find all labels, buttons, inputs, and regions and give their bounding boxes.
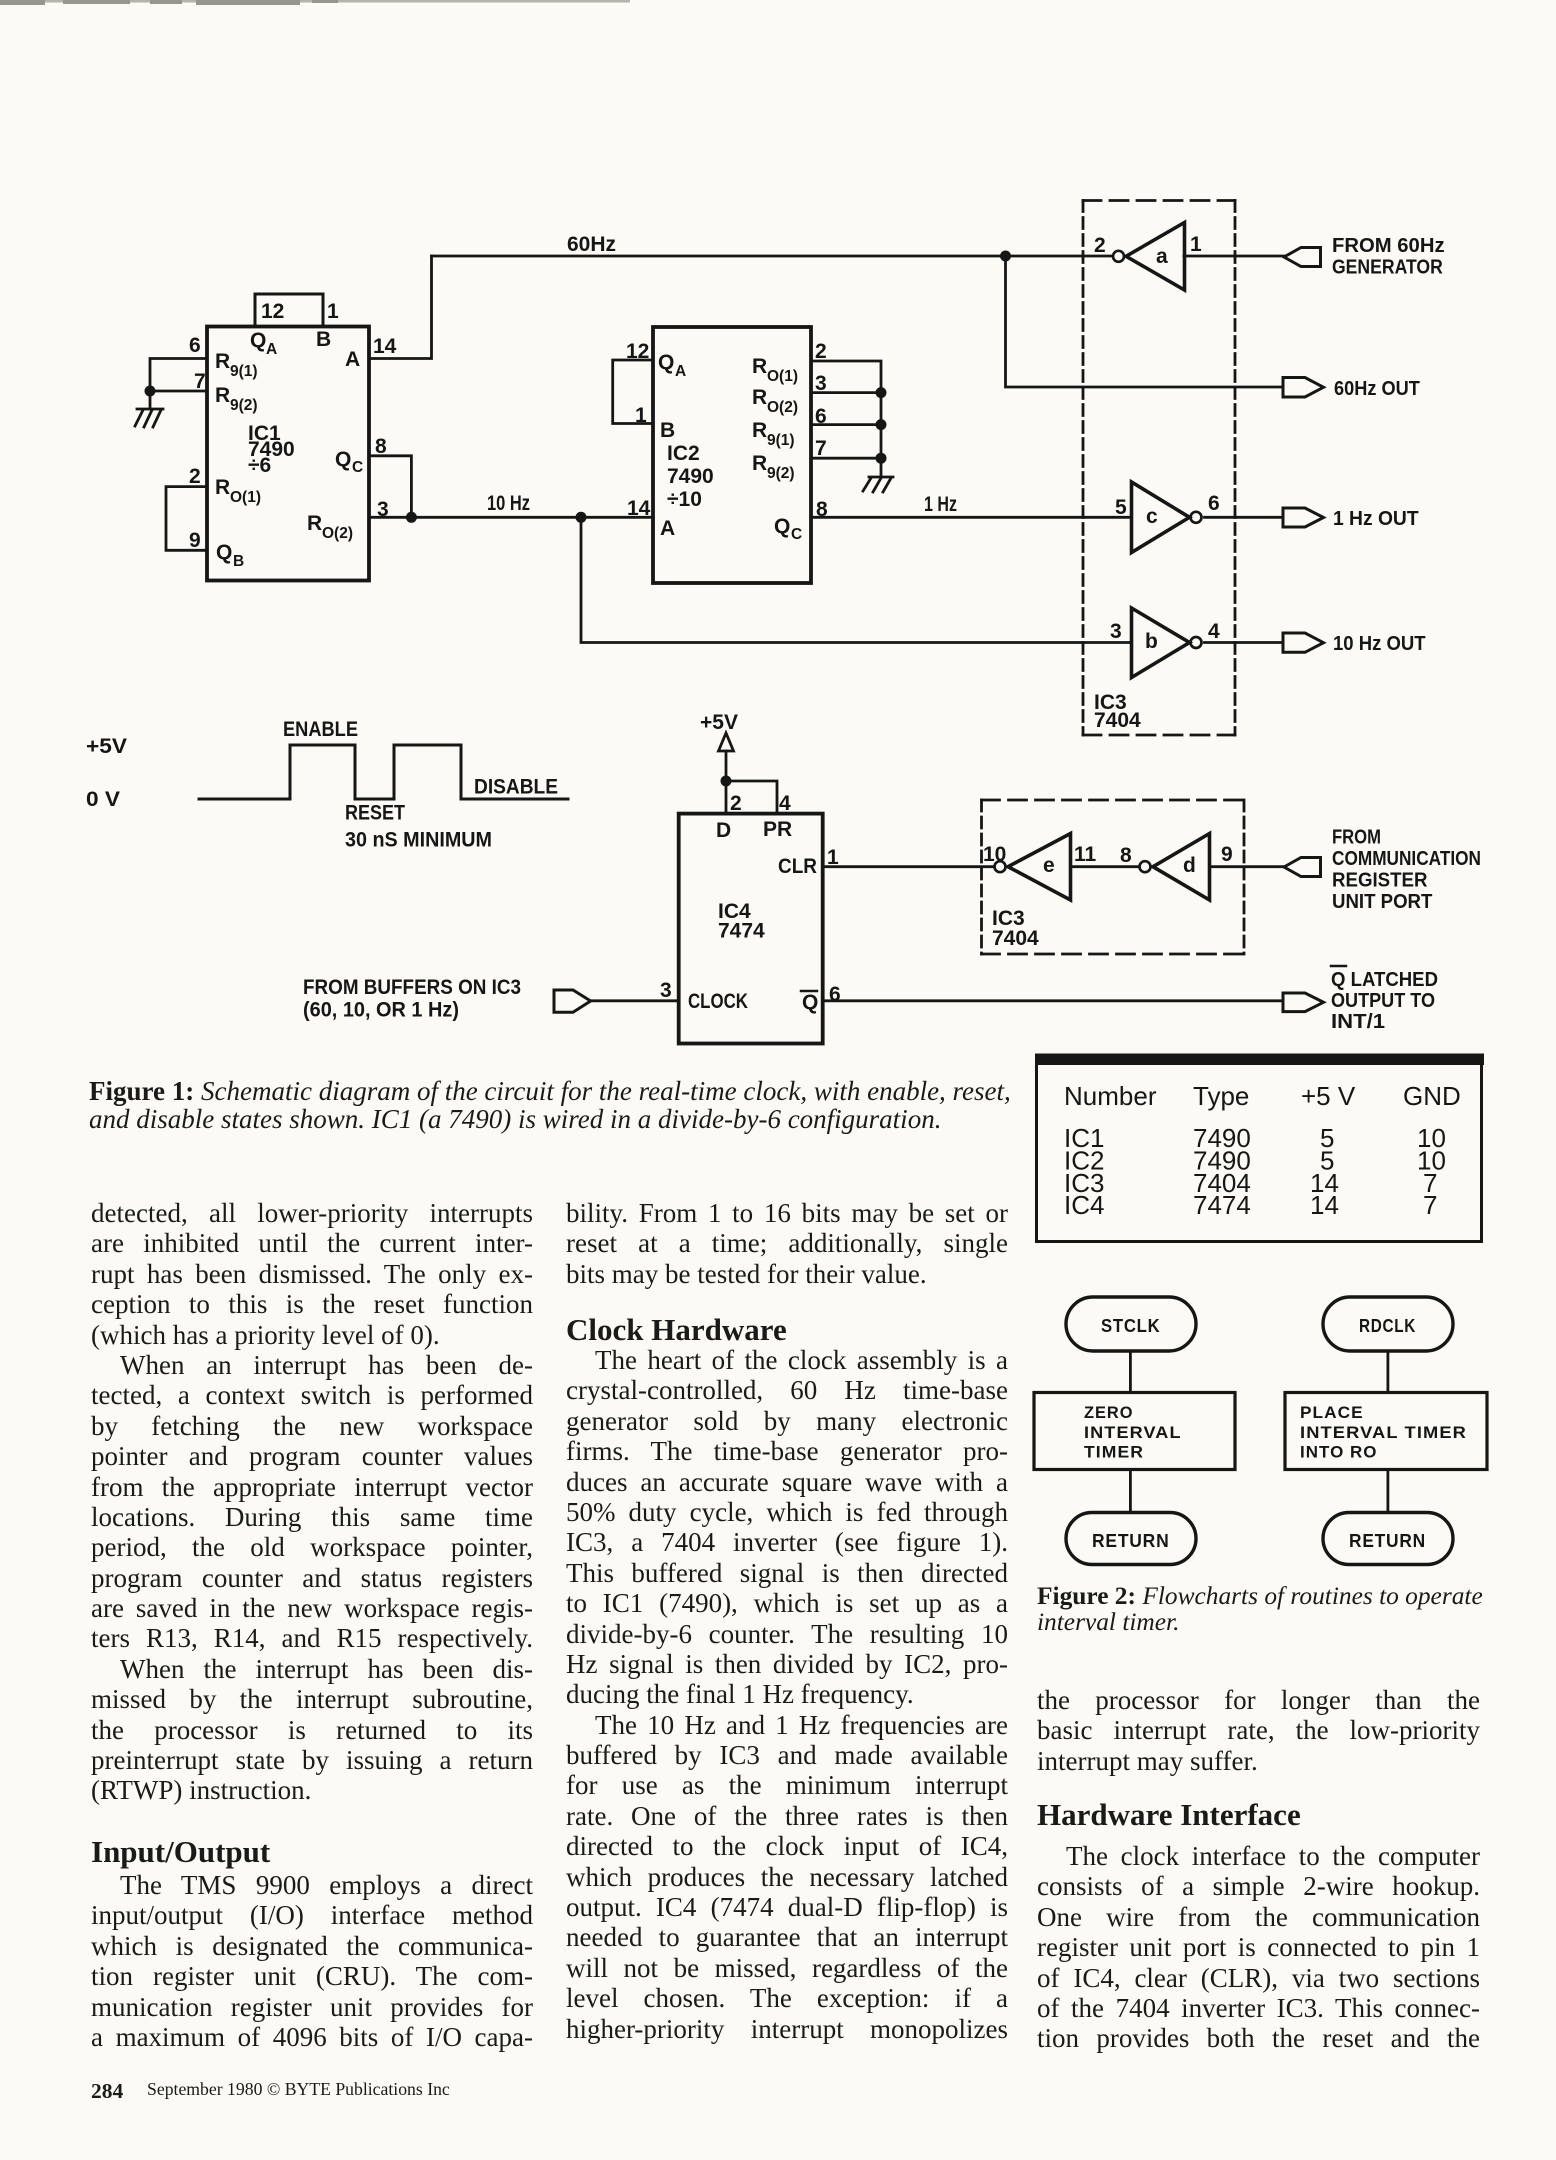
svg-text:R: R	[215, 476, 230, 499]
svg-text:O(2): O(2)	[322, 525, 353, 542]
svg-text:DISABLE: DISABLE	[474, 776, 558, 799]
svg-text:7474: 7474	[718, 920, 765, 943]
svg-text:6: 6	[829, 983, 841, 1006]
svg-text:7: 7	[1423, 1190, 1437, 1220]
column 3 body text	[1037, 1685, 1480, 1776]
svg-text:e: e	[1043, 854, 1055, 877]
svg-text:9(2): 9(2)	[767, 465, 795, 482]
svg-text:ZERO: ZERO	[1084, 1404, 1134, 1422]
svg-text:PLACE: PLACE	[1300, 1404, 1364, 1422]
svg-text:30 nS MINIMUM: 30 nS MINIMUM	[345, 829, 492, 852]
svg-text:Q: Q	[250, 329, 266, 352]
svg-text:OUTPUT TO: OUTPUT TO	[1331, 990, 1435, 1012]
svg-text:÷10: ÷10	[667, 488, 702, 511]
flowchart connector line	[1129, 1470, 1132, 1513]
svg-text:IC4: IC4	[1064, 1190, 1104, 1220]
connector FROM 60Hz GENERATOR	[1284, 235, 1445, 279]
svg-text:14: 14	[373, 335, 397, 358]
svg-text:7: 7	[194, 370, 206, 393]
svg-text:1: 1	[1190, 233, 1202, 256]
wire IC1 pin14 to 60Hz net	[369, 256, 432, 359]
svg-text:A: A	[345, 348, 360, 371]
wire IC1 pins 6,7	[150, 359, 207, 392]
IC4 7474 box	[679, 814, 823, 1044]
wire 10Hz label / pin3 to IC2 pin14	[369, 516, 653, 519]
svg-text:RDCLK: RDCLK	[1359, 1316, 1416, 1336]
flowchart connector line	[1129, 1351, 1132, 1393]
svg-text:1: 1	[327, 300, 339, 323]
wire 60Hz out branch	[1006, 256, 1284, 387]
svg-text:+5V: +5V	[700, 711, 738, 734]
svg-text:2: 2	[815, 340, 827, 363]
svg-text:4: 4	[1208, 620, 1220, 643]
svg-text:GENERATOR: GENERATOR	[1332, 257, 1443, 279]
wire 10Hz branch down	[581, 517, 1132, 642]
inverter a (IC3a)	[1094, 223, 1284, 291]
svg-text:(60, 10, OR 1 Hz): (60, 10, OR 1 Hz)	[303, 999, 459, 1022]
svg-text:+5 V: +5 V	[1301, 1081, 1356, 1111]
wire IC2 pins 12,1 loop	[613, 360, 653, 424]
figure 1 caption	[89, 1078, 1011, 1133]
node pin8/pin3 junction	[406, 512, 417, 523]
svg-text:1 Hz: 1 Hz	[924, 493, 957, 516]
IC2 7490 box	[653, 327, 811, 583]
svg-text:60Hz OUT: 60Hz OUT	[1334, 378, 1420, 400]
svg-text:FROM BUFFERS ON IC3: FROM BUFFERS ON IC3	[303, 976, 521, 999]
svg-text:RESET: RESET	[345, 802, 405, 825]
svg-text:10 Hz OUT: 10 Hz OUT	[1333, 633, 1426, 655]
svg-text:2: 2	[730, 792, 742, 815]
svg-text:9: 9	[1221, 843, 1233, 866]
svg-text:B: B	[660, 419, 675, 442]
IC1 pin labels	[189, 300, 397, 570]
svg-text:B: B	[233, 553, 244, 570]
svg-text:2: 2	[189, 465, 201, 488]
svg-text:6: 6	[1208, 492, 1220, 515]
svg-text:8: 8	[1120, 844, 1132, 867]
svg-text:COMMUNICATION: COMMUNICATION	[1332, 848, 1481, 870]
svg-text:O(1): O(1)	[230, 489, 261, 506]
wire clock input to IC4	[590, 999, 679, 1002]
node IC2 pin7 junction	[876, 453, 887, 464]
svg-text:4: 4	[779, 792, 791, 815]
IC1 7490 box	[207, 294, 369, 581]
svg-text:O(1): O(1)	[767, 368, 798, 385]
svg-text:c: c	[1146, 505, 1158, 528]
svg-text:UNIT PORT: UNIT PORT	[1332, 891, 1432, 913]
svg-text:Q: Q	[216, 541, 232, 564]
svg-text:10: 10	[983, 843, 1006, 866]
svg-text:14: 14	[1310, 1190, 1339, 1220]
svg-text:Q: Q	[802, 991, 818, 1014]
svg-text:Q LATCHED: Q LATCHED	[1331, 969, 1438, 991]
svg-text:INTO RO: INTO RO	[1300, 1444, 1378, 1462]
svg-text:C: C	[352, 459, 363, 476]
IC2 pin labels	[626, 340, 828, 543]
dashed box IC3 7404 (buffers e,d)	[982, 800, 1245, 954]
svg-text:ENABLE: ENABLE	[283, 718, 358, 741]
flowchart PLACE INTERVAL TIMER INTO RO box	[1285, 1393, 1487, 1470]
svg-text:3: 3	[660, 979, 672, 1002]
svg-text:9(1): 9(1)	[767, 432, 795, 449]
svg-text:0 V: 0 V	[86, 788, 120, 811]
svg-text:a: a	[1156, 245, 1168, 268]
svg-text:7: 7	[815, 437, 827, 460]
svg-text:R: R	[752, 419, 767, 442]
inverter b (IC3b)	[1110, 608, 1283, 678]
column 2 body text	[566, 1198, 1008, 1289]
figure 2 caption	[1037, 1583, 1483, 1635]
flowchart STCLK terminal	[1066, 1297, 1196, 1351]
svg-text:5: 5	[1115, 496, 1127, 519]
flowchart connector line	[1387, 1351, 1390, 1393]
svg-text:14: 14	[627, 497, 651, 520]
svg-text:R: R	[307, 512, 322, 535]
svg-text:÷6: ÷6	[248, 454, 271, 477]
flowchart connector line	[1387, 1470, 1390, 1513]
svg-text:C: C	[791, 526, 802, 543]
IC4 pin labels	[660, 792, 841, 1014]
svg-text:+5V: +5V	[86, 735, 127, 758]
svg-text:d: d	[1183, 854, 1196, 877]
inverter c (IC3c)	[1115, 482, 1283, 553]
node 60Hz junction	[1000, 251, 1011, 262]
svg-text:60Hz: 60Hz	[567, 233, 616, 256]
connector 60Hz OUT	[1283, 378, 1420, 401]
waveform enable/reset/disable	[86, 718, 568, 852]
svg-text:Q: Q	[335, 448, 351, 471]
svg-text:TIMER: TIMER	[1084, 1444, 1144, 1462]
column 1 body text	[91, 1198, 533, 1806]
svg-text:RETURN: RETURN	[1092, 1531, 1170, 1551]
node IC2 pin6 junction	[876, 419, 887, 430]
svg-text:7404: 7404	[992, 927, 1039, 950]
svg-text:RETURN: RETURN	[1349, 1531, 1426, 1551]
svg-text:A: A	[266, 341, 277, 358]
svg-text:R: R	[215, 384, 230, 407]
ground IC1	[135, 391, 163, 427]
svg-text:REGISTER: REGISTER	[1332, 870, 1428, 892]
wire IC4 Q-bar output	[823, 999, 1283, 1002]
Q-bar overbar on IC4 output	[801, 990, 817, 993]
dashed box IC3 7404 (buffers a,b,c)	[1083, 201, 1235, 736]
svg-text:B: B	[316, 328, 331, 351]
inverter d (IC3d)	[1120, 834, 1284, 901]
svg-text:IC2: IC2	[667, 442, 700, 465]
wire 1Hz net	[811, 516, 1132, 519]
svg-text:Q: Q	[658, 351, 674, 374]
wire 60Hz net	[432, 255, 1112, 258]
node IC2 pin3 junction	[876, 387, 887, 398]
svg-text:7474: 7474	[1193, 1190, 1251, 1220]
svg-text:Number: Number	[1064, 1081, 1157, 1111]
svg-text:b: b	[1145, 630, 1158, 653]
connector FROM COMMUNICATION REGISTER UNIT PORT	[1284, 827, 1481, 914]
svg-text:CLOCK: CLOCK	[688, 990, 748, 1013]
IC power table	[1035, 1054, 1484, 1242]
inverter e (IC3e)	[983, 834, 1138, 901]
svg-text:O(2): O(2)	[767, 399, 798, 416]
page footer	[91, 2081, 123, 2103]
svg-text:INTERVAL: INTERVAL	[1084, 1424, 1182, 1442]
svg-text:9(1): 9(1)	[230, 363, 258, 380]
connector Q-bar LATCHED OUTPUT TO INT/1	[1283, 966, 1438, 1033]
wire IC1 pin8 Qc to pin3	[369, 456, 411, 518]
flowchart RETURN terminal (right)	[1323, 1513, 1453, 1565]
svg-text:PR: PR	[763, 818, 792, 841]
svg-text:STCLK: STCLK	[1101, 1316, 1160, 1336]
svg-text:GND: GND	[1403, 1081, 1461, 1111]
connector 10Hz OUT	[1283, 633, 1426, 655]
flowchart RDCLK terminal	[1323, 1297, 1453, 1351]
svg-text:FROM 60Hz: FROM 60Hz	[1332, 235, 1445, 257]
svg-text:INT/1: INT/1	[1331, 1011, 1385, 1033]
svg-text:R: R	[752, 452, 767, 475]
svg-text:12: 12	[261, 300, 284, 323]
node 10Hz junction	[576, 512, 587, 523]
svg-text:9: 9	[189, 529, 201, 552]
svg-text:11: 11	[1074, 843, 1097, 866]
svg-text:R: R	[215, 350, 230, 373]
svg-text:9(2): 9(2)	[230, 397, 258, 414]
svg-text:A: A	[675, 363, 686, 380]
page-top scan marks	[0, 0, 630, 5]
svg-text:A: A	[660, 517, 675, 540]
wire IC4 CLR to inverter e	[823, 865, 993, 868]
svg-text:R: R	[752, 355, 767, 378]
node IC1 pin7 junction	[145, 386, 156, 397]
svg-text:7490: 7490	[667, 465, 714, 488]
flowchart RETURN terminal (left)	[1066, 1513, 1196, 1565]
wire IC1 pins 2,9 loop	[166, 487, 207, 551]
svg-text:CLR: CLR	[778, 855, 817, 878]
svg-text:Type: Type	[1193, 1081, 1249, 1111]
svg-text:1: 1	[635, 404, 647, 427]
connector FROM BUFFERS ON IC3	[303, 976, 591, 1022]
svg-text:R: R	[752, 386, 767, 409]
+5V supply arrow for IC4	[700, 711, 777, 814]
connector 1Hz OUT	[1283, 508, 1419, 530]
svg-text:FROM: FROM	[1332, 827, 1381, 849]
svg-text:7404: 7404	[1094, 709, 1141, 732]
svg-text:INTERVAL TIMER: INTERVAL TIMER	[1300, 1424, 1467, 1442]
svg-text:6: 6	[189, 334, 201, 357]
svg-text:D: D	[716, 819, 731, 842]
svg-text:12: 12	[626, 340, 649, 363]
flowchart ZERO INTERVAL TIMER box	[1034, 1393, 1235, 1470]
svg-text:10 Hz: 10 Hz	[487, 492, 530, 515]
wire +5V to PR pin 4	[726, 781, 777, 814]
svg-text:Q: Q	[774, 515, 790, 538]
ground IC2	[863, 477, 893, 492]
wire IC2 reset pins to ground bus	[811, 361, 881, 477]
svg-text:1 Hz OUT: 1 Hz OUT	[1333, 508, 1419, 530]
svg-text:3: 3	[1110, 620, 1122, 643]
svg-text:2: 2	[1094, 234, 1106, 257]
